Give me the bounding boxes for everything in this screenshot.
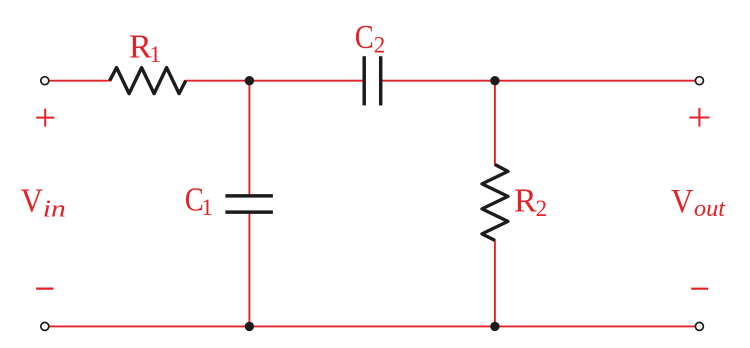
plus sign output — [689, 108, 709, 127]
resistor R2 — [482, 165, 508, 241]
node C junction dot (bottom left) — [245, 322, 254, 331]
wire top-right: C2 right plate to output terminal (through node B) — [382, 80, 695, 82]
input terminal bottom — [41, 322, 49, 330]
plus sign input — [36, 109, 54, 127]
svg-text:2: 2 — [536, 196, 548, 221]
svg-text:in: in — [43, 196, 66, 222]
minus sign output — [691, 288, 708, 290]
label C1 — [185, 181, 213, 220]
svg-text:out: out — [694, 196, 726, 222]
output terminal top — [695, 77, 703, 85]
wire bottom rail: left terminal to right terminal — [49, 325, 695, 327]
svg-text:V: V — [21, 183, 44, 220]
node D junction dot (bottom right) — [490, 322, 499, 331]
output terminal bottom — [695, 322, 703, 330]
svg-text:1: 1 — [201, 195, 213, 220]
node A junction dot — [245, 76, 254, 85]
node B junction dot — [490, 76, 499, 85]
label Vout — [671, 183, 726, 222]
label R1 — [129, 28, 161, 67]
resistor R1 — [110, 68, 186, 94]
wire left branch lower: C1 bottom plate down to bottom rail — [248, 214, 250, 327]
minus sign input — [36, 288, 53, 290]
input terminal top — [41, 77, 49, 85]
svg-text:V: V — [671, 183, 694, 220]
wire right branch upper: node B down to R2 — [494, 81, 496, 166]
svg-text:2: 2 — [374, 33, 386, 58]
wire top-left: input terminal to R1 — [49, 80, 111, 82]
label Vin — [21, 183, 66, 223]
svg-text:R: R — [514, 183, 537, 220]
wire top-middle: R1 to C2 left plate (through node A) — [185, 80, 363, 82]
svg-text:1: 1 — [150, 42, 162, 67]
capacitor C1 — [225, 196, 273, 212]
wire right branch lower: R2 down to bottom rail — [494, 240, 496, 327]
svg-text:C: C — [355, 19, 374, 56]
label R2 — [514, 183, 547, 222]
label C2 — [355, 19, 386, 58]
capacitor C2 — [364, 56, 381, 105]
wire left branch upper: node A down to C1 top plate — [248, 81, 250, 195]
